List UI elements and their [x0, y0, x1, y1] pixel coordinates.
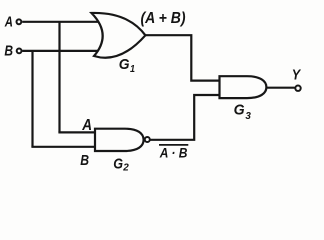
overline over A·B	[159, 144, 188, 146]
svg-text:B: B	[4, 43, 13, 60]
svg-text:(A + B): (A + B)	[141, 10, 186, 27]
svg-text:Y: Y	[292, 66, 302, 83]
wire A branch horizontal (into NAND A input)	[58, 131, 97, 133]
svg-text:3: 3	[245, 110, 251, 122]
wire A (input A to OR gate top input)	[22, 21, 99, 23]
svg-text:A: A	[4, 14, 13, 31]
input terminal A (open circle)	[17, 19, 22, 24]
AND gate G3 body	[220, 76, 267, 98]
svg-text:G: G	[119, 56, 130, 73]
svg-text:A: A	[81, 117, 92, 134]
wire OR output (G1 tip right, down, right into G3 upper input)	[144, 35, 221, 80]
svg-text:1: 1	[130, 63, 135, 75]
wire B (input B to OR gate bottom input)	[22, 50, 99, 52]
svg-text:G: G	[234, 101, 245, 118]
wire B branch horizontal (into NAND B input)	[31, 146, 97, 148]
input terminal B (open circle)	[17, 49, 22, 54]
wire G3 output to terminal Y	[264, 87, 295, 89]
svg-text:2: 2	[122, 162, 129, 174]
OR gate G1	[92, 13, 146, 58]
NAND gate G2 body	[95, 129, 144, 151]
svg-text:G: G	[113, 155, 123, 172]
output terminal Y (open circle)	[295, 86, 300, 91]
svg-text:B: B	[80, 152, 89, 169]
wire A branch vertical (down to NAND A input)	[58, 22, 60, 133]
svg-text:A · B: A · B	[159, 145, 187, 161]
wire NAND output (bubble right, up, right into G3 lower input)	[150, 95, 221, 140]
NAND G2 inversion bubble	[145, 137, 150, 142]
wire B branch vertical (down to NAND B input)	[31, 51, 33, 147]
